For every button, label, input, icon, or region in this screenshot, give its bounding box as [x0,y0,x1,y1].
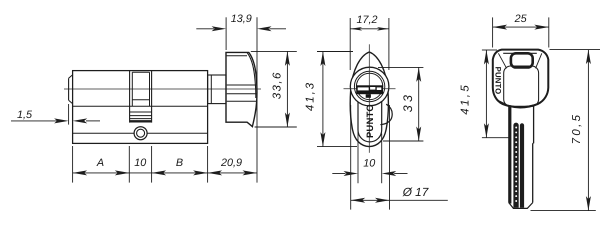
key head bottom inner curve [504,104,538,107]
cam opening left edge [129,71,131,123]
dimension 70,5 line [587,50,589,211]
cylinder face ring 1 [354,71,384,101]
dimension diameter 17 line [351,199,390,201]
dimension 41,3 line [322,52,324,147]
thumbturn knob outline [226,52,257,126]
dimension 33,6 extension lines [251,50,297,52]
key blade spine upper [533,107,535,144]
dimension 41,5 line [485,50,487,138]
key blade left edge [508,107,510,203]
key blade spine step [532,142,535,144]
plug chamfer bottom [69,100,73,104]
keyway bottom channel [366,94,371,98]
knob oval outline (behind face) [350,52,388,147]
svg-text:41,5: 41,5 [459,83,471,115]
svg-text:13,9: 13,9 [231,13,252,25]
fixing screw hole outer [134,127,147,140]
fixing screw hole inner [137,129,145,137]
knob collar [208,75,226,104]
dimension diameter 17 extension lines [350,105,352,210]
dimension 33,6 line [286,51,288,127]
dimension 17,2 line [350,28,389,30]
view 1: cylinder side view centerline [64,88,261,90]
cam tab [380,104,392,124]
keyway profile [356,85,383,94]
dimension 13,9 line [196,28,214,30]
svg-text:PUNTO: PUNTO [494,67,503,95]
barrel/flange parting line [73,105,208,107]
svg-text:Ø 17: Ø 17 [402,185,429,199]
knob top inner line [226,55,247,57]
dimension diameter 17 leader [390,199,448,201]
bottom dimension extension lines [72,146,74,183]
svg-text:70,5: 70,5 [571,113,583,145]
dimension 1,5 line left [11,120,58,122]
key blade groove 1 [513,123,518,208]
key head center panel [504,66,539,106]
cam ring step line [132,99,149,101]
knob grip ridges [227,84,257,86]
dimension 17,2 extension lines [349,18,351,70]
svg-text:PUNTO: PUNTO [365,104,375,138]
cylinder face outer circle [350,67,389,106]
svg-text:33: 33 [401,92,415,113]
svg-text:1,5: 1,5 [17,109,33,121]
dimension 41,5 extension lines [482,49,497,51]
key head bevel diagonals [498,53,506,68]
plug chamfer top [69,75,73,79]
dimension 33 line [418,67,420,141]
dimension 10 extension lines [357,131,359,183]
dimension 41,3 extension lines [317,51,353,53]
cam lobe lines [130,111,152,113]
dimension 70,5 extension lines [550,49,600,51]
svg-text:10: 10 [363,158,375,170]
knob collar ring [210,75,212,104]
svg-text:33,6: 33,6 [272,71,284,99]
cam opening right edge [151,71,153,123]
svg-text:10: 10 [134,157,146,169]
front plug face [68,78,70,100]
svg-text:25: 25 [514,13,528,25]
view 2: vertical centerline [368,44,370,153]
cylinder face ring 2 [356,73,382,99]
cam ring right edge [149,72,151,106]
key blade left edge stripe [509,107,512,204]
svg-text:A: A [96,157,104,169]
key blade tip [509,203,533,209]
flange chamfer line [73,132,208,134]
cylinder body outline [73,71,208,144]
dimension 33 extension lines [378,66,423,68]
dimension 1,5 line right [86,120,100,122]
knob wing edge line [247,53,256,98]
svg-text:B: B [176,157,183,169]
svg-text:41,3: 41,3 [305,81,317,111]
key blade dimple dots [515,127,517,129]
cylinder flange front face [358,95,382,142]
cam ring top edge [132,71,149,73]
view 2: horizontal centerline [344,88,396,90]
dimension 1,5 extension line [68,104,70,125]
svg-text:17,2: 17,2 [356,14,377,26]
dimension 13,9 extension lines [225,17,227,50]
key blade groove 2 [520,123,524,208]
dimension 25 line [493,26,549,28]
svg-text:20,9: 20,9 [220,157,242,169]
key blade spine lower [532,143,534,202]
bottom dimension line [73,172,257,174]
key head outline [493,50,549,108]
dimension 25 extension lines [492,17,494,47]
key head top inner line [503,52,537,54]
cam ring left edge [131,72,133,106]
dimension 10 line [332,173,345,175]
key head window [511,53,533,67]
